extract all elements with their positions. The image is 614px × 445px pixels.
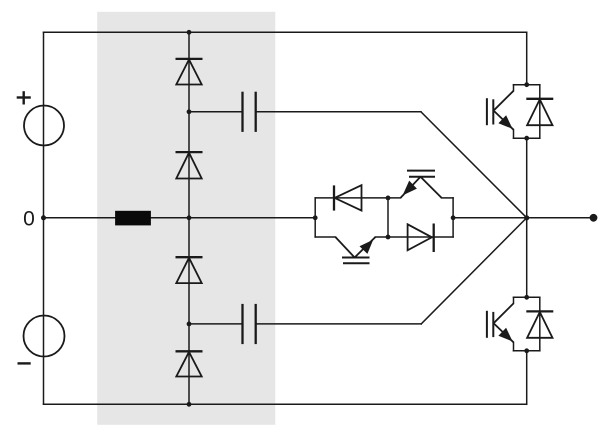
wire C1 to string node	[189, 111, 243, 113]
diode D7	[526, 99, 553, 125]
wire C2 to string node	[189, 323, 243, 325]
node dot string-C1	[187, 109, 192, 114]
wire top rail	[44, 31, 527, 33]
wire cell lower branch right	[375, 236, 453, 238]
node dot module1-bottom	[524, 136, 529, 141]
inductor L1	[115, 211, 151, 226]
diode D4	[176, 351, 203, 376]
wire right rail lower	[526, 351, 528, 405]
IGBT Q1 emitter arrow	[498, 115, 512, 129]
wire bottom rail	[44, 403, 527, 405]
wire cell lower branch	[315, 236, 335, 238]
wire cell output to junction	[453, 217, 527, 219]
node dot cell-left	[313, 215, 318, 220]
wire C1 right horizontal	[256, 111, 421, 113]
wire junction to bottom module	[526, 218, 528, 297]
node dot module2-bottom	[524, 348, 529, 353]
IGBT module Q4 wires	[514, 297, 540, 351]
source V1	[24, 106, 64, 146]
IGBT Q2 emitter arrow	[360, 240, 374, 254]
IGBT Q3 emitter arrow	[403, 181, 417, 196]
wire neutral 0 line	[44, 217, 316, 219]
diode D1	[176, 59, 203, 85]
wire cell left vertical	[314, 198, 316, 237]
node dot output junction	[524, 215, 529, 220]
V1 plus label	[17, 91, 31, 104]
diode D2	[176, 152, 203, 178]
wire junction to top module	[526, 138, 528, 218]
highlight band (neutral clamp region)	[97, 12, 275, 425]
diode D5	[334, 185, 362, 210]
node dot module2-top	[524, 295, 529, 300]
IGBT module Q1 top wire	[514, 85, 540, 139]
wire C2 diagonal to output node	[421, 218, 527, 324]
IGBT Q4	[487, 303, 514, 342]
wire cell middle vertical	[387, 198, 389, 237]
IGBT Q1	[487, 91, 514, 130]
wire cell upper branch right	[442, 197, 454, 199]
diode D6	[408, 224, 434, 253]
V2 minus label	[18, 362, 31, 364]
wire cell upper branch	[315, 197, 400, 199]
node dot string-0	[187, 215, 192, 220]
IGBT Q3	[401, 171, 442, 198]
node dot cell-mid-top	[386, 196, 391, 201]
svg-text:0: 0	[23, 207, 35, 230]
node dot string-C2	[187, 322, 192, 327]
wire right rail upper	[526, 32, 528, 84]
wire C2 right horizontal	[256, 323, 422, 325]
diode D8	[526, 311, 553, 337]
IGBT Q4 emitter arrow	[498, 328, 512, 342]
output terminal dot	[590, 214, 598, 222]
wire left rail	[43, 32, 45, 404]
capacitor C1	[243, 92, 256, 132]
node dot module1-top	[524, 82, 529, 87]
diode D3	[176, 257, 203, 283]
IGBT Q2	[335, 237, 375, 263]
wire C1 diagonal to output node	[421, 112, 527, 218]
node dot string-top	[187, 30, 192, 35]
node dot cell-right	[451, 215, 456, 220]
capacitor C2	[243, 304, 256, 344]
node dot cell-mid-bottom	[386, 235, 391, 240]
wire clamp string vertical	[188, 32, 190, 404]
node dot string-bottom	[187, 402, 192, 407]
wire output terminal	[527, 217, 594, 219]
node dot neutral-left	[41, 215, 46, 220]
source V2	[24, 316, 65, 357]
wire cell right vertical	[452, 198, 454, 237]
